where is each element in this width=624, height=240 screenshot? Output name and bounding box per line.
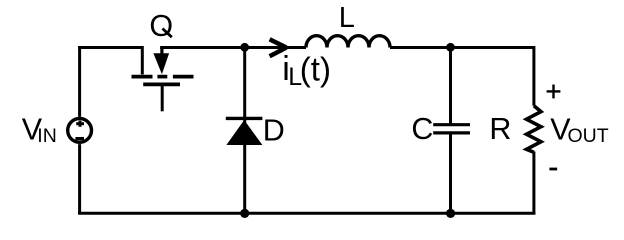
- node: diode bottom junction: [240, 209, 249, 218]
- wire resistor bottom to bottom rail: [532, 152, 535, 215]
- resistor R1: [527, 106, 542, 153]
- wire capacitor branch top: [449, 48, 452, 125]
- wire MOSFET to top rail right segment: [160, 46, 306, 49]
- wire left column top (VIN to top rail): [78, 46, 81, 117]
- transistor Q1 (MOSFET switch): [132, 46, 194, 111]
- wire capacitor node to right column: [532, 46, 535, 106]
- wire capacitor branch bottom: [449, 133, 452, 213]
- minus sign (output polarity): [549, 168, 557, 171]
- plus sign (output polarity): [547, 85, 561, 99]
- wire inductor to capacitor node: [390, 46, 534, 49]
- wire bottom rail: [78, 212, 535, 215]
- wire left column bottom (VIN to bottom rail): [78, 144, 81, 214]
- svg-text:R: R: [489, 112, 511, 146]
- wire diode branch: [243, 48, 246, 214]
- label Q: [149, 9, 173, 43]
- label VOUT: [550, 112, 608, 147]
- capacitor C1: [433, 125, 470, 133]
- voltage source VIN: [68, 118, 92, 142]
- label iL(t): [282, 50, 331, 91]
- node: capacitor bottom junction: [446, 209, 455, 218]
- node: switch-diode-inductor junction (top): [240, 43, 249, 52]
- inductor L: [306, 36, 390, 48]
- svg-text:(t): (t): [300, 51, 331, 88]
- diode D1: [226, 118, 263, 145]
- label VIN: [22, 113, 57, 148]
- current arrow iL(t): [270, 39, 287, 56]
- svg-text:D: D: [263, 114, 285, 148]
- svg-text:O: O: [149, 9, 173, 43]
- svg-text:IN: IN: [37, 125, 57, 147]
- node: inductor-capacitor junction (top): [446, 43, 455, 52]
- svg-text:L: L: [339, 2, 355, 34]
- wire top-left rail to MOSFET drain: [78, 46, 142, 49]
- svg-text:C: C: [411, 112, 433, 146]
- svg-text:OUT: OUT: [568, 125, 609, 147]
